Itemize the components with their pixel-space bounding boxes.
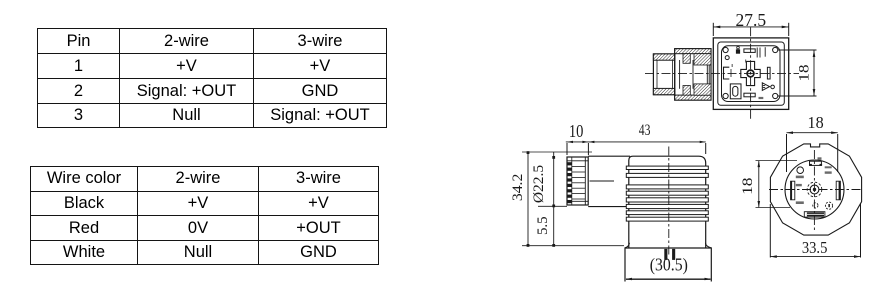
- shaft center mark: [590, 180, 615, 182]
- dim 18 right line: [813, 50, 815, 96]
- svg-text:43: 43: [639, 123, 651, 140]
- svg-text:34.2: 34.2: [510, 174, 525, 201]
- dim 34.2 line: [527, 152, 529, 246]
- centerline horizontal: [645, 73, 799, 75]
- svg-text:10: 10: [569, 123, 584, 141]
- body ribs: [626, 166, 708, 221]
- terminal pin right: [672, 249, 675, 260]
- small dashed circle bottom-center: [813, 203, 818, 208]
- right slot: [836, 181, 840, 200]
- inner rounded rect: [722, 46, 781, 102]
- centerlines: [769, 189, 861, 191]
- obround slot housing: [730, 84, 741, 99]
- tiny text markings: [796, 157, 832, 204]
- shaft between nut and body: [588, 155, 630, 157]
- dim 27.5 extension lines: [712, 23, 714, 36]
- right terminal slot: [767, 67, 770, 79]
- wire color table: [30, 166, 379, 265]
- small top-left marking circle: [725, 56, 729, 60]
- small dashed circle bottom-right pin4: [825, 202, 832, 209]
- screw hole top-left: [723, 47, 728, 52]
- left bracket slot: [724, 67, 730, 79]
- tiny text markings: [732, 47, 766, 99]
- flange: [625, 248, 711, 282]
- centerline vertical: [750, 27, 752, 121]
- screw hole bottom-left: [723, 93, 728, 98]
- top terminal slot: [744, 49, 755, 53]
- svg-text:18: 18: [808, 113, 824, 132]
- arrows dim 10: [567, 141, 573, 143]
- top slot: [810, 161, 822, 165]
- dim 10/43 shared line: [566, 141, 706, 143]
- dimension texts: [510, 10, 827, 275]
- svg-text:18: 18: [796, 64, 812, 81]
- svg-text:27.5: 27.5: [736, 10, 767, 30]
- bottom terminal slot: [744, 93, 755, 97]
- svg-text:Ø22.5: Ø22.5: [532, 165, 547, 203]
- left slot: [791, 181, 795, 200]
- svg-text:18: 18: [740, 178, 755, 195]
- dim 22.5/5.5 line: [553, 152, 555, 246]
- body centerline: [668, 147, 670, 258]
- dim 27.5 line: [713, 26, 788, 28]
- knurled nut: [567, 157, 588, 205]
- center cross: [741, 61, 760, 85]
- dim (30.5): [626, 278, 711, 280]
- screw hole bottom-right: [773, 93, 778, 98]
- terminal pin left: [664, 249, 667, 260]
- pin assignment table: [37, 28, 387, 128]
- dim 18 left: [758, 161, 760, 208]
- cable slot bar: [804, 212, 825, 217]
- extension lines: [566, 143, 568, 155]
- connector shaft section: nut body: [653, 54, 674, 95]
- extension lines left dims: [522, 151, 592, 153]
- square body outline: [713, 38, 788, 110]
- mid rounded rect: [718, 42, 785, 105]
- dim 18 top: [787, 132, 838, 134]
- connector shaft section: coupling block: [673, 49, 711, 100]
- screw hole top-right: [773, 47, 778, 52]
- dim 18 right: extension lines: [778, 49, 817, 51]
- svg-text:33.5: 33.5: [802, 239, 828, 257]
- small circle top-left: [797, 167, 804, 174]
- earth triangle: [762, 83, 769, 91]
- center rings: [807, 182, 822, 197]
- svg-text:(30.5): (30.5): [650, 255, 688, 275]
- small filled rect marking: [736, 50, 739, 53]
- main body: [629, 156, 706, 248]
- connector face circle: [785, 160, 844, 219]
- dim 33.5: [770, 256, 860, 258]
- knurled ring polygon with notch: [770, 144, 861, 235]
- svg-text:5.5: 5.5: [535, 216, 551, 235]
